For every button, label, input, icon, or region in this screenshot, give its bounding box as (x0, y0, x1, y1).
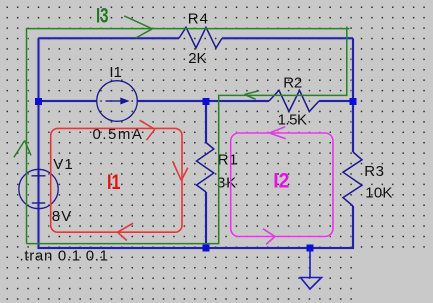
voltage source V1 (19, 169, 58, 209)
mesh current loop I2 (magenta) (231, 127, 333, 245)
svg-text:R1: R1 (218, 152, 238, 169)
wire bottom rail (38, 247, 354, 249)
mesh current loop I1 (red) (51, 120, 188, 240)
svg-text:1.5K: 1.5K (278, 111, 307, 128)
svg-text:3K: 3K (217, 174, 237, 191)
svg-text:.tran 0.1 0.1: .tran 0.1 0.1 (20, 248, 109, 265)
svg-text:R3: R3 (364, 163, 384, 180)
resistor R1 (197, 143, 214, 193)
wire top rail (39, 37, 354, 39)
svg-text:I3: I3 (96, 4, 109, 27)
svg-text:I1: I1 (109, 64, 122, 81)
junction node at V1/I1 rail (35, 98, 42, 105)
junction node at R1 top (203, 98, 210, 105)
svg-text:R2: R2 (283, 75, 302, 92)
wire left side (38, 38, 40, 249)
junction node at R2/R3 (350, 98, 357, 105)
resistor R2 (269, 90, 319, 111)
wire middle rail (39, 100, 354, 102)
wire right side (352, 38, 354, 249)
svg-text:V1: V1 (53, 156, 74, 173)
resistor R3 (343, 152, 362, 206)
mesh current loop I3 (green) (14, 16, 350, 244)
junction node at R1 bottom (203, 245, 210, 252)
resistor R4 (179, 27, 222, 48)
svg-text:8V: 8V (52, 208, 73, 225)
svg-text:2K: 2K (188, 50, 206, 67)
junction node at ground (307, 245, 314, 252)
current source I1 (97, 81, 138, 122)
svg-text:I1: I1 (107, 171, 121, 194)
svg-text:10K: 10K (365, 185, 392, 202)
ground (301, 248, 322, 289)
wire middle branch (205, 101, 207, 249)
svg-text:I2: I2 (273, 170, 289, 193)
svg-text:R4: R4 (188, 10, 209, 27)
